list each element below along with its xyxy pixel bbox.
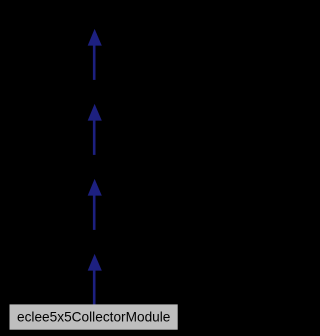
wire: edge 1 shaft [93, 44, 96, 80]
arrowhead edge 3 [88, 179, 102, 196]
arrowhead edge 2 [88, 104, 102, 121]
wire: edge 3 shaft [93, 194, 96, 230]
wire: edge 4 shaft [93, 269, 96, 306]
arrowhead edge 4 [88, 254, 102, 271]
wire: edge 2 shaft [93, 119, 96, 155]
arrowhead edge 1 [88, 29, 102, 46]
node eclee5x5CollectorModule [10, 304, 178, 329]
svg-text:eclee5x5CollectorModule: eclee5x5CollectorModule [17, 308, 171, 324]
